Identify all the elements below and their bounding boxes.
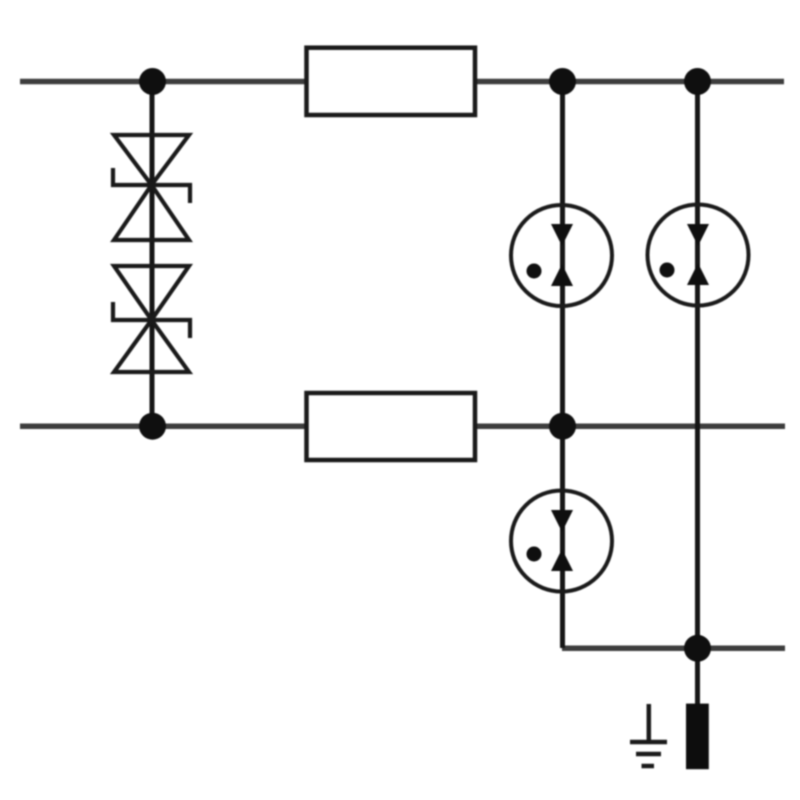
ground bbox=[630, 704, 667, 766]
gas discharge tube G1 bbox=[511, 205, 612, 306]
node E bbox=[549, 413, 576, 440]
resistor R1 bbox=[307, 48, 476, 115]
gas discharge tube G2 bbox=[648, 205, 749, 306]
wire bottom line L2 bbox=[20, 423, 785, 429]
wire earth bus bbox=[562, 646, 785, 652]
wire right branch bbox=[695, 81, 700, 705]
terminal PE bbox=[686, 704, 709, 770]
wire diode branch bbox=[150, 81, 155, 426]
resistor R2 bbox=[307, 393, 476, 460]
wire top line L1 bbox=[20, 79, 784, 85]
wire middle branch bbox=[560, 81, 565, 648]
node A bbox=[139, 68, 166, 95]
node D bbox=[139, 413, 166, 440]
node C bbox=[684, 68, 711, 95]
node F bbox=[684, 635, 711, 662]
node B bbox=[549, 68, 576, 95]
gas discharge tube G3 bbox=[511, 491, 612, 592]
suppressor diode D2 bbox=[113, 266, 190, 372]
suppressor diode D1 bbox=[113, 135, 190, 240]
